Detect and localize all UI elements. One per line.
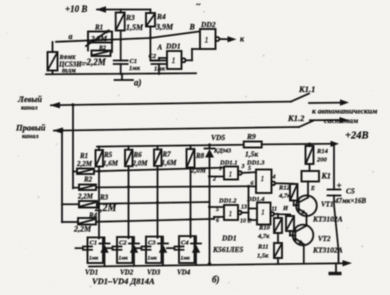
svg-text:2,2М: 2,2М [73,225,92,234]
svg-text:DD1: DD1 [221,234,237,243]
svg-text:1,5к: 1,5к [245,150,258,159]
svg-text:4,7к: 4,7к [257,233,270,240]
svg-text:С2: С2 [149,53,157,60]
svg-text:1мк: 1мк [89,256,99,262]
svg-text:К561ЛЕ5: К561ЛЕ5 [212,245,243,254]
svg-text:~: ~ [196,0,201,9]
svg-text:1: 1 [172,56,176,65]
svg-text:1мк: 1мк [181,256,191,262]
svg-text:VT1: VT1 [321,201,333,209]
svg-text:КТ3102А: КТ3102А [312,246,343,255]
svg-text:КД943: КД943 [213,149,231,155]
svg-text:С1: С1 [90,240,98,247]
svg-text:канал: канал [21,105,38,112]
svg-text:+24В: +24В [345,131,369,142]
svg-text:R5: R5 [103,151,113,159]
svg-text:R14: R14 [316,148,329,155]
svg-text:11: 11 [272,207,278,213]
svg-text:1: 1 [261,174,265,183]
svg-text:DD1.2: DD1.2 [218,198,237,205]
svg-text:1,6М: 1,6М [162,159,178,167]
svg-text:1: 1 [229,170,233,179]
svg-text:1: 1 [261,208,265,217]
svg-text:к автоматическим: к автоматическим [312,107,377,116]
svg-text:1мк: 1мк [119,256,129,262]
svg-text:б): б) [212,275,220,285]
svg-text:2,2М: 2,2М [77,193,94,201]
svg-text:С1: С1 [130,58,138,65]
svg-text:1мк: 1мк [129,65,141,72]
svg-text:200: 200 [316,157,328,164]
svg-text:R10: R10 [258,225,271,232]
svg-text:R1: R1 [79,152,88,160]
svg-text:R3: R3 [99,194,109,202]
svg-text:R11: R11 [257,244,268,251]
svg-text:а): а) [134,78,142,88]
svg-text:канал: канал [22,133,39,140]
svg-text:системам: системам [324,116,358,125]
svg-text:1: 1 [219,166,222,172]
svg-text:47мк×16В: 47мк×16В [334,197,366,205]
svg-text:R12: R12 [278,185,291,192]
svg-text:3: 3 [241,164,245,170]
svg-text:2,2М: 2,2М [90,34,107,43]
svg-text:С3: С3 [148,240,156,247]
svg-text:6: 6 [216,218,219,224]
svg-text:13: 13 [241,205,247,211]
svg-text:4: 4 [272,175,276,181]
svg-text:DD1.3: DD1.3 [246,160,265,167]
svg-text:Левый: Левый [17,94,42,104]
svg-text:1: 1 [205,36,209,45]
svg-text:В: В [189,23,196,32]
svg-text:5: 5 [216,207,219,213]
svg-text:2,2М: 2,2М [76,160,93,168]
svg-text:DD1: DD1 [165,42,181,51]
svg-text:VD5: VD5 [211,133,225,142]
svg-text:К1.2: К1.2 [287,113,305,123]
svg-text:3,9М: 3,9М [155,23,174,32]
svg-text:R2: R2 [83,176,93,184]
svg-text:И: И [282,205,289,212]
svg-text:а: а [69,32,73,41]
svg-text:DD2: DD2 [200,20,216,29]
svg-text:С4: С4 [181,240,189,247]
svg-text:1,5к: 1,5к [257,253,269,260]
svg-text:R4: R4 [156,12,166,21]
svg-text:К1: К1 [321,172,331,181]
svg-text:5: 5 [248,166,251,172]
svg-text:А: А [157,44,163,52]
svg-text:С2: С2 [119,240,127,247]
svg-text:R2: R2 [98,46,106,52]
svg-text:1,6М: 1,6М [103,160,119,168]
svg-text:6: 6 [251,181,254,187]
svg-text:VD1–VD4 Д814А: VD1–VD4 Д814А [92,276,155,286]
svg-text:R9: R9 [246,132,256,141]
svg-text:+10 В: +10 В [65,4,87,14]
svg-text:1мк: 1мк [154,66,166,73]
svg-text:Правый: Правый [15,123,46,133]
svg-text:1мк: 1мк [148,256,158,262]
svg-text:R8: R8 [195,152,205,160]
svg-text:1,5М: 1,5М [126,23,144,32]
svg-text:С5: С5 [346,187,355,196]
svg-text:R1: R1 [94,24,103,32]
svg-text:VT2: VT2 [318,235,331,243]
svg-text:R3: R3 [125,13,135,22]
svg-text:КТ3102А: КТ3102А [312,215,343,224]
svg-text:1: 1 [229,209,233,218]
svg-text:2: 2 [212,177,216,183]
svg-text:2,0М: 2,0М [132,160,149,168]
svg-text:VD4: VD4 [177,269,191,277]
svg-text:Е: Е [310,186,315,192]
svg-text:К1.1: К1.1 [298,84,315,94]
svg-text:+: + [337,181,342,191]
svg-text:R7: R7 [162,151,172,159]
svg-text:R6: R6 [133,151,143,159]
